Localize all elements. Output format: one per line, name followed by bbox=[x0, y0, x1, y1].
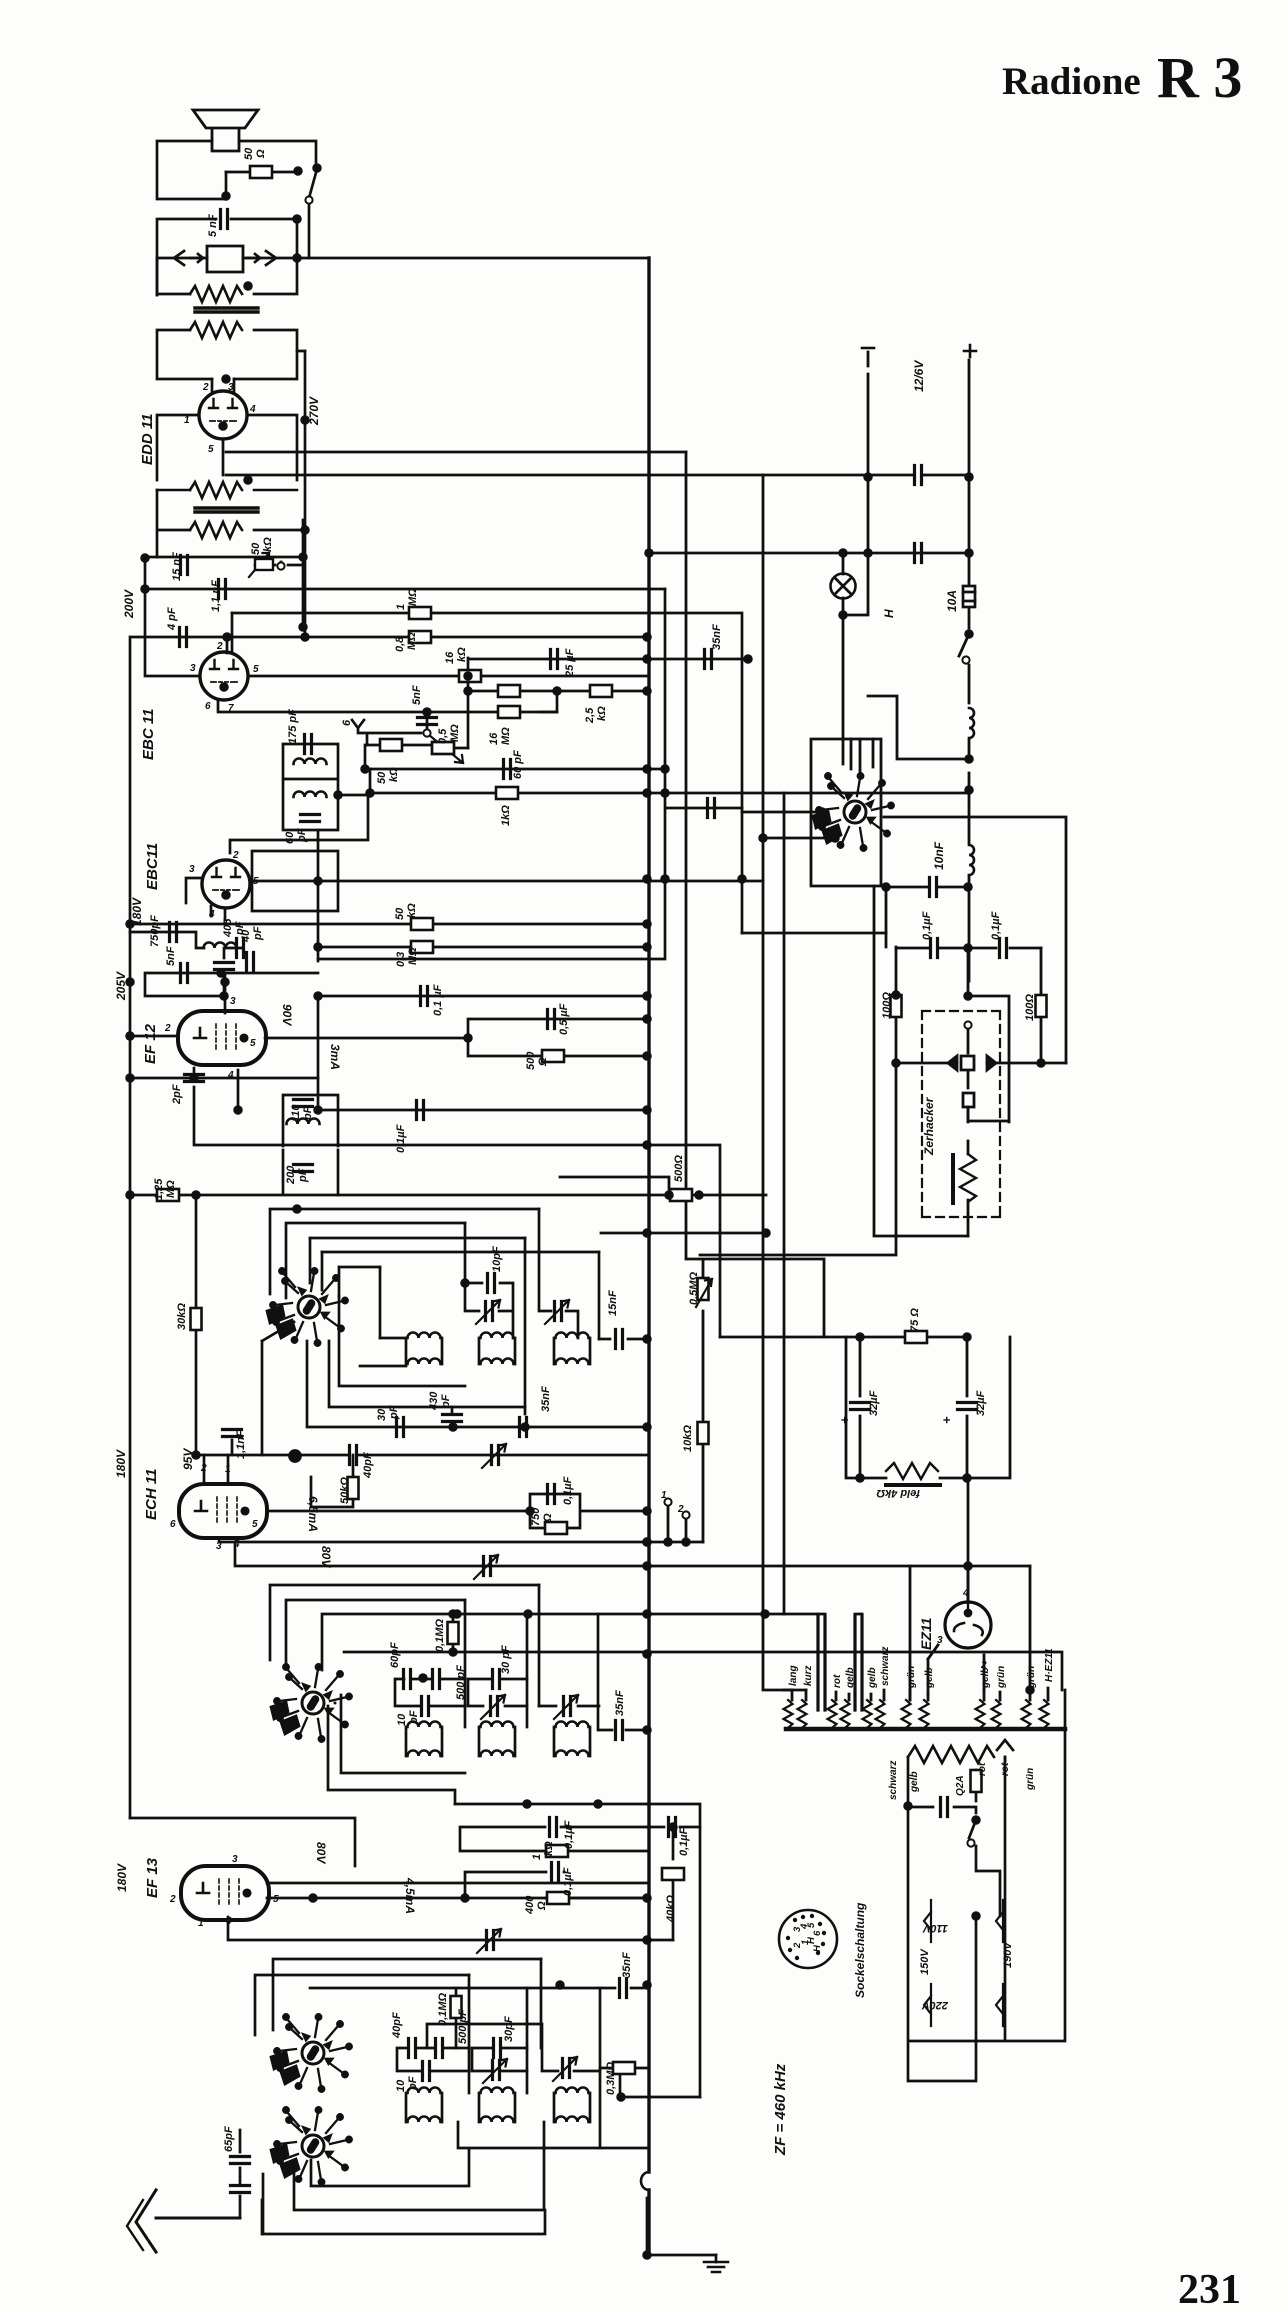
svg-text:0,1µF: 0,1µF bbox=[990, 911, 1002, 940]
svg-text:25 µF: 25 µF bbox=[564, 648, 576, 678]
svg-text:750pF: 750pF bbox=[149, 915, 161, 947]
svg-text:100Ω: 100Ω bbox=[881, 992, 893, 1019]
svg-text:32µF: 32µF bbox=[975, 1390, 987, 1416]
svg-text:35nF: 35nF bbox=[711, 624, 723, 650]
svg-text:750: 750 bbox=[530, 1507, 542, 1526]
svg-text:pF: pF bbox=[407, 2076, 419, 2091]
svg-text:Radione: Radione bbox=[1002, 60, 1141, 103]
svg-text:ECH 11: ECH 11 bbox=[143, 1469, 160, 1520]
svg-text:Q2A: Q2A bbox=[955, 1775, 966, 1796]
svg-text:grün: grün bbox=[1026, 1666, 1037, 1689]
svg-text:R 3: R 3 bbox=[1157, 45, 1242, 110]
svg-text:H: H bbox=[806, 1936, 817, 1944]
svg-text:60 pF: 60 pF bbox=[512, 750, 524, 779]
svg-text:10: 10 bbox=[395, 2079, 407, 2092]
svg-text:430: 430 bbox=[428, 1391, 440, 1411]
svg-text:190V: 190V bbox=[1002, 1941, 1014, 1968]
svg-text:Ω: Ω bbox=[255, 149, 267, 159]
svg-text:405: 405 bbox=[222, 918, 234, 938]
svg-text:60pF: 60pF bbox=[389, 1642, 401, 1668]
svg-text:3: 3 bbox=[937, 1635, 943, 1646]
svg-text:4 pF: 4 pF bbox=[166, 607, 178, 631]
svg-text:1,1 nF: 1,1 nF bbox=[210, 580, 222, 612]
svg-text:35nF: 35nF bbox=[621, 1952, 633, 1978]
svg-text:kΩ: kΩ bbox=[262, 537, 274, 552]
svg-text:grün: grün bbox=[1025, 1768, 1036, 1791]
svg-text:6,5mA: 6,5mA bbox=[306, 1496, 320, 1532]
svg-text:50: 50 bbox=[243, 147, 255, 160]
svg-text:50: 50 bbox=[394, 907, 406, 920]
svg-text:500 pF: 500 pF bbox=[457, 2009, 469, 2044]
svg-text:32µF: 32µF bbox=[868, 1390, 880, 1416]
svg-text:2,5: 2,5 bbox=[584, 707, 596, 724]
svg-text:+: + bbox=[939, 1416, 954, 1424]
svg-text:0,5: 0,5 bbox=[437, 728, 449, 744]
svg-text:270V: 270V bbox=[307, 396, 321, 426]
svg-text:10kΩ: 10kΩ bbox=[682, 1425, 694, 1452]
svg-text:EBC 11: EBC 11 bbox=[140, 709, 157, 760]
svg-text:231: 231 bbox=[1178, 2267, 1241, 2312]
svg-text:500Ω: 500Ω bbox=[673, 1155, 685, 1182]
svg-text:1: 1 bbox=[661, 1490, 667, 1501]
svg-text:10nF: 10nF bbox=[932, 841, 946, 870]
svg-text:kΩ: kΩ bbox=[406, 903, 418, 918]
svg-text:1: 1 bbox=[184, 415, 190, 426]
svg-text:0,1µF: 0,1µF bbox=[563, 1820, 575, 1849]
svg-text:5nF: 5nF bbox=[165, 946, 177, 966]
svg-text:ZF = 460 kHz: ZF = 460 kHz bbox=[772, 2063, 789, 2156]
svg-text:30kΩ: 30kΩ bbox=[176, 1303, 188, 1330]
svg-text:MΩ: MΩ bbox=[165, 1180, 177, 1198]
svg-text:12/6V: 12/6V bbox=[912, 360, 926, 392]
svg-text:15nF: 15nF bbox=[607, 1290, 619, 1316]
svg-text:180V: 180V bbox=[115, 1863, 129, 1892]
svg-text:150V: 150V bbox=[919, 1948, 931, 1975]
svg-text:500 pF: 500 pF bbox=[455, 1665, 467, 1700]
svg-text:110: 110 bbox=[290, 1104, 302, 1122]
svg-text:rot: rot bbox=[832, 1674, 843, 1688]
svg-text:3mA: 3mA bbox=[328, 1044, 342, 1070]
svg-text:40kΩ: 40kΩ bbox=[665, 1895, 677, 1923]
svg-text:H: H bbox=[882, 609, 896, 618]
svg-text:pF: pF bbox=[302, 1106, 314, 1121]
svg-text:H·EZ11: H·EZ11 bbox=[1044, 1648, 1055, 1682]
svg-text:gelb: gelb bbox=[845, 1667, 856, 1689]
svg-text:5: 5 bbox=[208, 444, 214, 455]
svg-text:EF 12: EF 12 bbox=[142, 1023, 159, 1064]
svg-text:95V: 95V bbox=[181, 1448, 195, 1470]
svg-text:2pF: 2pF bbox=[171, 1084, 183, 1105]
svg-text:rot: rot bbox=[977, 1762, 988, 1776]
svg-text:1kΩ: 1kΩ bbox=[500, 805, 512, 826]
svg-text:200: 200 bbox=[285, 1165, 297, 1185]
svg-text:30pF: 30pF bbox=[503, 2016, 515, 2042]
svg-text:220V: 220V bbox=[921, 1999, 949, 2011]
svg-text:2: 2 bbox=[202, 382, 209, 393]
svg-text:50: 50 bbox=[250, 542, 262, 555]
svg-text:Zerhacker: Zerhacker bbox=[922, 1096, 936, 1156]
svg-text:1: 1 bbox=[198, 1918, 204, 1929]
svg-text:200V: 200V bbox=[122, 589, 136, 619]
svg-text:0,1µF: 0,1µF bbox=[562, 1476, 574, 1505]
svg-text:H: H bbox=[812, 1944, 823, 1952]
svg-text:+: + bbox=[837, 1416, 852, 1424]
svg-text:6: 6 bbox=[812, 1930, 823, 1936]
svg-text:0,3MΩ: 0,3MΩ bbox=[605, 2062, 617, 2095]
svg-text:pF: pF bbox=[297, 1168, 309, 1183]
svg-text:500: 500 bbox=[525, 1051, 537, 1070]
svg-text:3: 3 bbox=[228, 382, 234, 393]
svg-text:60: 60 bbox=[284, 831, 296, 844]
svg-text:3: 3 bbox=[230, 996, 236, 1007]
svg-text:35nF: 35nF bbox=[614, 1690, 626, 1716]
svg-text:16: 16 bbox=[444, 651, 456, 664]
svg-text:110V: 110V bbox=[921, 1922, 948, 1934]
svg-text:kurz: kurz bbox=[803, 1665, 814, 1686]
svg-text:40pF: 40pF bbox=[391, 2012, 403, 2039]
svg-text:pF: pF bbox=[408, 1710, 420, 1725]
svg-text:4: 4 bbox=[249, 404, 256, 415]
svg-text:2: 2 bbox=[232, 850, 239, 861]
svg-text:30: 30 bbox=[376, 1408, 388, 1421]
svg-text:pF: pF bbox=[234, 921, 246, 936]
svg-text:1: 1 bbox=[395, 604, 407, 610]
svg-text:kΩ: kΩ bbox=[543, 1841, 555, 1856]
svg-text:grün: grün bbox=[996, 1666, 1007, 1689]
svg-text:schwarz: schwarz bbox=[880, 1647, 891, 1686]
svg-text:5: 5 bbox=[250, 1038, 256, 1049]
svg-text:6: 6 bbox=[170, 1519, 176, 1530]
svg-text:5: 5 bbox=[273, 1894, 279, 1905]
svg-text:pF: pF bbox=[252, 926, 264, 941]
svg-text:2: 2 bbox=[164, 1023, 171, 1034]
svg-text:5: 5 bbox=[806, 1922, 817, 1928]
svg-text:6: 6 bbox=[341, 719, 353, 726]
svg-text:5nF: 5nF bbox=[411, 685, 423, 705]
svg-text:65pF: 65pF bbox=[223, 2126, 235, 2152]
svg-text:pF: pF bbox=[296, 828, 308, 843]
svg-text:2: 2 bbox=[216, 641, 223, 652]
svg-text:3: 3 bbox=[190, 663, 196, 674]
svg-text:Sockelschaltung: Sockelschaltung bbox=[853, 1902, 867, 1998]
svg-text:90V: 90V bbox=[280, 1004, 294, 1026]
svg-text:EDD 11: EDD 11 bbox=[139, 414, 156, 465]
svg-text:40pF: 40pF bbox=[362, 1452, 374, 1479]
svg-text:Ω: Ω bbox=[537, 1057, 549, 1067]
svg-text:2: 2 bbox=[169, 1894, 176, 1905]
svg-text:gelb: gelb bbox=[867, 1667, 878, 1689]
svg-text:2: 2 bbox=[677, 1504, 684, 1515]
svg-text:4: 4 bbox=[233, 1539, 240, 1550]
svg-text:rot: rot bbox=[1000, 1762, 1011, 1776]
svg-text:15 nF: 15 nF bbox=[171, 552, 183, 581]
svg-text:180V: 180V bbox=[114, 1449, 128, 1478]
svg-text:5: 5 bbox=[252, 1519, 258, 1530]
svg-text:35nF: 35nF bbox=[540, 1386, 552, 1412]
svg-text:1: 1 bbox=[225, 1464, 231, 1475]
svg-text:MΩ: MΩ bbox=[406, 632, 418, 650]
svg-text:175 pF: 175 pF bbox=[287, 709, 299, 744]
svg-text:50: 50 bbox=[376, 771, 388, 784]
svg-text:7: 7 bbox=[228, 703, 234, 714]
svg-text:feld 4kΩ: feld 4kΩ bbox=[876, 1487, 920, 1499]
svg-text:MΩ: MΩ bbox=[500, 727, 512, 745]
svg-text:4,5mA: 4,5mA bbox=[403, 1877, 417, 1914]
svg-text:3: 3 bbox=[216, 1541, 222, 1552]
svg-text:0,5 µF: 0,5 µF bbox=[558, 1003, 570, 1035]
svg-text:0,8: 0,8 bbox=[394, 636, 406, 652]
svg-text:gelb: gelb bbox=[909, 1771, 920, 1793]
svg-text:Ω: Ω bbox=[542, 1513, 554, 1523]
svg-text:16: 16 bbox=[488, 732, 500, 745]
svg-text:10: 10 bbox=[396, 1713, 408, 1726]
svg-text:1: 1 bbox=[531, 1854, 543, 1860]
svg-text:4: 4 bbox=[962, 1588, 969, 1599]
svg-text:3: 3 bbox=[232, 1854, 238, 1865]
svg-text:EZ11: EZ11 bbox=[918, 1617, 934, 1650]
svg-text:pF: pF bbox=[440, 1394, 452, 1409]
svg-text:10A: 10A bbox=[945, 590, 959, 612]
svg-text:MΩ: MΩ bbox=[407, 588, 419, 606]
svg-text:0,5MΩ: 0,5MΩ bbox=[688, 1272, 700, 1305]
svg-text:EF 13: EF 13 bbox=[144, 1857, 161, 1898]
svg-text:10pF: 10pF bbox=[491, 1246, 503, 1272]
svg-text:gelb: gelb bbox=[924, 1667, 935, 1689]
svg-text:30 pF: 30 pF bbox=[500, 1645, 512, 1674]
svg-text:5 nF: 5 nF bbox=[207, 214, 219, 237]
svg-text:0,3: 0,3 bbox=[395, 952, 407, 967]
svg-text:0,1µF: 0,1µF bbox=[395, 1124, 407, 1153]
svg-text:205V: 205V bbox=[114, 971, 128, 1001]
svg-text:schwarz: schwarz bbox=[888, 1761, 899, 1800]
svg-text:0,1 µF: 0,1 µF bbox=[432, 984, 444, 1016]
svg-text:50kΩ: 50kΩ bbox=[339, 1477, 351, 1504]
svg-text:1: 1 bbox=[194, 1074, 200, 1085]
svg-text:4: 4 bbox=[225, 1916, 232, 1927]
svg-text:4: 4 bbox=[227, 1070, 234, 1081]
svg-text:5: 5 bbox=[253, 876, 259, 887]
svg-text:5: 5 bbox=[253, 664, 259, 675]
svg-text:4: 4 bbox=[208, 909, 215, 920]
svg-text:Ω: Ω bbox=[536, 1901, 548, 1911]
svg-text:0,1µF: 0,1µF bbox=[678, 1827, 690, 1856]
svg-text:gelb: gelb bbox=[980, 1667, 991, 1689]
svg-text:75 Ω: 75 Ω bbox=[909, 1308, 921, 1332]
svg-text:100Ω: 100Ω bbox=[1024, 994, 1036, 1021]
svg-text:2: 2 bbox=[200, 1463, 207, 1474]
svg-text:MΩ: MΩ bbox=[407, 947, 419, 965]
svg-text:grün: grün bbox=[906, 1666, 917, 1689]
svg-text:400: 400 bbox=[524, 1895, 536, 1915]
svg-text:0,1MΩ: 0,1MΩ bbox=[434, 1619, 446, 1652]
svg-text:1,25: 1,25 bbox=[153, 1178, 165, 1200]
svg-text:0,1µF: 0,1µF bbox=[562, 1867, 574, 1896]
svg-text:0,1µF: 0,1µF bbox=[921, 911, 933, 940]
svg-text:80V: 80V bbox=[314, 1842, 328, 1864]
svg-text:kΩ: kΩ bbox=[388, 767, 400, 782]
svg-text:pF: pF bbox=[388, 1405, 400, 1420]
svg-text:kΩ: kΩ bbox=[596, 706, 608, 721]
svg-text:EBC11: EBC11 bbox=[144, 843, 161, 890]
svg-text:80V: 80V bbox=[319, 1546, 333, 1568]
svg-text:6: 6 bbox=[205, 701, 211, 712]
svg-text:1,1nF: 1,1nF bbox=[235, 1430, 247, 1459]
svg-text:0,1MΩ: 0,1MΩ bbox=[437, 1993, 449, 2026]
svg-text:kΩ: kΩ bbox=[456, 647, 468, 662]
svg-text:MΩ: MΩ bbox=[449, 724, 461, 742]
svg-text:3: 3 bbox=[189, 864, 195, 875]
svg-text:lang: lang bbox=[788, 1665, 799, 1686]
svg-text:180V: 180V bbox=[130, 897, 144, 926]
